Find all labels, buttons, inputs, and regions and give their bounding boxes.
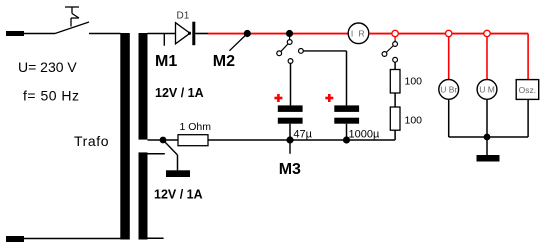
voltmeter U M — [477, 80, 497, 100]
wire switch contact to capacitor C1 — [290, 63, 292, 105]
wire switch to resistor R2 — [394, 62, 396, 69]
junction dot ground join — [484, 134, 491, 141]
transformer T1 primary winding — [120, 33, 130, 240]
svg-text:1000µ: 1000µ — [349, 128, 380, 140]
svg-text:47µ: 47µ — [293, 128, 312, 140]
svg-text:I R: I R — [351, 29, 366, 39]
junction dot C2 rail — [343, 136, 350, 143]
wire UBr to ground rail — [448, 99, 450, 137]
wire R3 to rail — [394, 130, 396, 140]
wire red to voltmeter UM — [486, 37, 488, 80]
wire ground join horizontal — [449, 136, 528, 138]
label 47u — [293, 128, 312, 140]
wire switch contact to capacitor C2 — [303, 51, 346, 106]
label M2 — [213, 53, 235, 70]
wire diode cathode black segment — [195, 33, 208, 35]
tap ring node UM — [484, 30, 490, 36]
svg-text:M1: M1 — [155, 53, 177, 70]
tap ring node UBr — [446, 30, 452, 36]
wire UM to ground — [486, 99, 488, 155]
transformer T1 secondary winding 2 — [139, 152, 148, 239]
svg-text:12V / 1A: 12V / 1A — [154, 188, 203, 202]
label 1000u — [349, 128, 380, 140]
wire secondary to diode — [148, 33, 176, 35]
label U= 230 V — [18, 59, 77, 75]
switch S3 load — [382, 37, 397, 63]
oscilloscope Osz — [516, 80, 539, 100]
wire red to voltmeter UBr — [448, 37, 450, 80]
svg-text:1 Ohm: 1 Ohm — [180, 121, 212, 133]
wire R2 to R3 — [394, 93, 396, 107]
junction dot switch S2 top — [286, 30, 293, 37]
wire red ammeter to corner — [369, 33, 528, 35]
ammeter U1 I R — [348, 23, 369, 44]
node M2 pointer — [229, 34, 247, 51]
resistor R2 100 — [390, 70, 400, 94]
svg-text:12V / 1A: 12V / 1A — [155, 86, 204, 100]
svg-text:100: 100 — [405, 114, 423, 126]
voltmeter U Br — [439, 80, 459, 100]
label 12V / 1A top — [155, 86, 204, 100]
switch lever center tap to ground — [163, 140, 178, 170]
wire C1 bottom — [289, 124, 291, 140]
node M2 junction dot — [244, 30, 251, 37]
svg-text:M2: M2 — [213, 53, 235, 70]
svg-text:100: 100 — [405, 75, 423, 87]
svg-text:U Br: U Br — [440, 85, 457, 95]
polarity plus C1 — [274, 94, 282, 102]
mains terminal L — [6, 31, 24, 36]
wire Osz to ground rail — [527, 99, 529, 137]
capacitor C2 1000u — [334, 105, 359, 123]
ground right — [477, 155, 500, 162]
svg-text:Osz.: Osz. — [519, 85, 536, 95]
transformer T1 secondary winding 1 — [139, 33, 148, 140]
wire switch to transformer primary — [89, 33, 121, 35]
label 100 R2 — [405, 75, 423, 87]
wire mains N to primary — [24, 238, 121, 240]
wire red diode to ammeter — [208, 33, 348, 35]
label 100 R3 — [405, 114, 423, 126]
ground left — [166, 170, 190, 177]
lower rail wire — [208, 139, 395, 141]
label Trafo — [74, 133, 109, 149]
label 12V / 1A bottom — [154, 188, 203, 202]
polarity plus C2 — [325, 94, 333, 102]
diode D1 — [176, 22, 196, 46]
stub wire secondary2 bottom — [148, 237, 164, 239]
junction dot C1 rail — [286, 136, 293, 143]
wire mains to switch — [24, 33, 55, 35]
label 1 Ohm — [180, 121, 212, 133]
stub wire secondary2 top — [148, 153, 165, 155]
svg-text:M3: M3 — [279, 161, 301, 178]
capacitor C1 47u — [278, 105, 303, 123]
label M3 — [279, 161, 301, 178]
svg-text:U M: U M — [479, 85, 495, 95]
node M3 stub — [289, 140, 291, 154]
mains terminal N — [6, 236, 24, 242]
node M1 tick — [163, 34, 165, 46]
wire red corner to Osz — [527, 34, 529, 80]
svg-text:f= 50 Hz: f= 50 Hz — [23, 88, 80, 104]
wire center tap to R1 — [148, 139, 179, 141]
tap ring node R — [392, 30, 398, 36]
svg-text:Trafo: Trafo — [74, 133, 109, 149]
switch S1 mains — [55, 7, 89, 34]
switch S2 capacitor selector — [277, 34, 303, 64]
resistor R1 1 Ohm — [178, 135, 208, 146]
junction dot center tap — [160, 137, 167, 144]
label M1 — [155, 53, 177, 70]
label f= 50 Hz — [23, 88, 80, 104]
svg-text:U= 230 V: U= 230 V — [18, 59, 77, 75]
svg-text:D1: D1 — [177, 11, 190, 22]
resistor R3 100 — [390, 107, 400, 130]
wire C2 bottom — [346, 124, 348, 140]
label D1 — [177, 11, 190, 22]
